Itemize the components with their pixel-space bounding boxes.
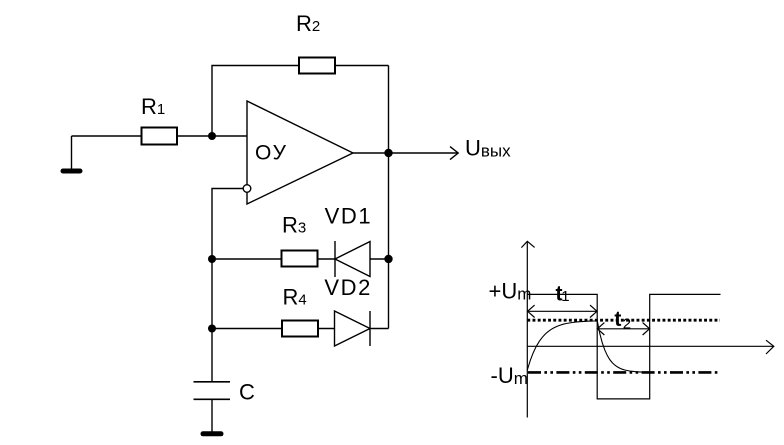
svg-text:VD1: VD1 [325,203,373,228]
svg-text:1: 1 [561,288,569,305]
svg-text:VD2: VD2 [324,275,372,300]
svg-text:2: 2 [623,316,631,333]
svg-text:t: t [614,308,621,331]
svg-text:ОУ: ОУ [255,142,288,165]
svg-text:C: C [239,380,255,405]
